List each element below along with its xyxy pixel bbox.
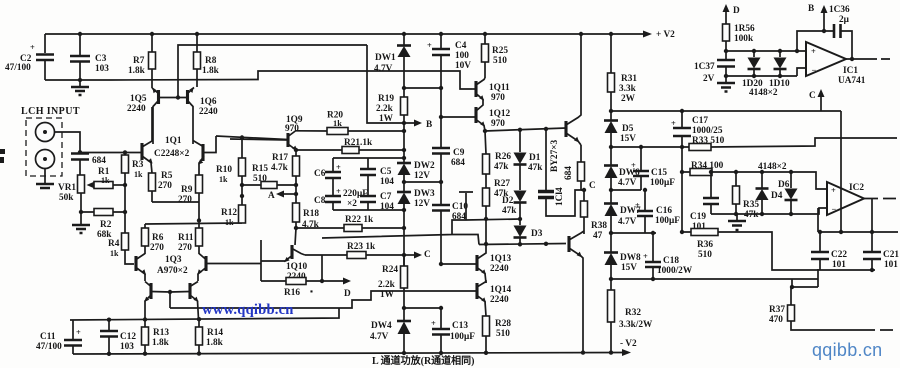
svg-text:R21.1k: R21.1k [344,138,373,148]
svg-text:R8: R8 [205,56,217,66]
svg-text:270: 270 [158,181,172,191]
zener DW1 [374,34,411,90]
resistor R23 [305,242,404,259]
svg-text:+ V2: + V2 [656,30,675,40]
capacitor 1C36 feedback [797,5,852,59]
svg-text:C9: C9 [453,148,465,158]
svg-text:2240: 2240 [199,107,218,117]
svg-text:47k: 47k [744,210,759,220]
wire IC2 vertical crossing [839,111,843,234]
svg-text:R16: R16 [284,288,300,298]
wire D-net staircase to 1Q14 base [170,291,476,308]
resistor R5 [149,171,173,191]
transistor 1Q13 [439,244,512,283]
node D arrow [343,278,351,300]
svg-text:1Q5: 1Q5 [130,94,147,104]
wire 1Q9 base [230,139,288,140]
svg-text:1Q12: 1Q12 [489,109,511,119]
svg-text:C17: C17 [692,116,708,126]
svg-text:1Q13: 1Q13 [490,254,512,264]
capacitor C21 [863,232,899,272]
resistor R13 [142,320,170,355]
svg-text:www.qqibb.cn: www.qqibb.cn [202,302,294,318]
svg-text:C19: C19 [690,212,706,222]
svg-text:47k: 47k [494,162,509,172]
svg-text:+: + [831,186,836,195]
svg-text:3.3k: 3.3k [619,84,637,94]
wire DW6 row [611,147,682,190]
op-amp IC1 [806,42,866,86]
svg-text:1k: 1k [134,170,143,179]
input jack J2 [36,150,55,169]
zener DW6 [604,166,640,204]
transistor 1Q12 [476,103,511,131]
capacitor C17 [671,111,723,149]
svg-text:D: D [344,289,351,299]
svg-text:684: 684 [92,156,106,166]
resistor 684 emitter [564,145,585,190]
svg-text:C: C [424,250,431,260]
svg-text:100μF: 100μF [450,332,475,342]
svg-text:1k: 1k [219,175,228,184]
wire plus input row IC1 [726,49,806,53]
transistor 1Q9 [285,115,303,151]
svg-text:D6: D6 [778,180,790,190]
svg-text:R5: R5 [161,171,173,181]
node B arrow up [808,4,828,33]
wire DW bottom tie to C column [404,181,441,183]
svg-text:270: 270 [178,195,192,205]
svg-text:100k: 100k [734,34,754,44]
zener DW7 [604,204,641,253]
wire lower diode row to BY27 base [479,242,566,246]
resistor R3 [122,150,144,233]
svg-text:R18: R18 [303,209,319,219]
svg-text:D4: D4 [771,191,783,201]
svg-text:2μ: 2μ [839,15,850,25]
svg-text:270: 270 [178,243,192,253]
capacitor 684 input [71,150,106,175]
svg-text:R27: R27 [494,179,510,189]
svg-text:1Q10: 1Q10 [286,262,308,272]
svg-text:- V2: - V2 [620,339,637,349]
svg-text:R38: R38 [591,221,607,231]
svg-text:100μF: 100μF [655,216,680,226]
svg-text:R35: R35 [743,200,759,210]
svg-text:qqibb.cn: qqibb.cn [812,340,882,360]
svg-text:103: 103 [120,342,134,352]
svg-text:1Q11: 1Q11 [489,83,510,93]
svg-text:1.8k: 1.8k [152,338,170,348]
wire IC2 output column [870,199,874,235]
wire D5 tap to C17 row [609,109,841,113]
svg-text:15V: 15V [620,134,636,144]
resistor R19 [376,88,408,133]
svg-text:R37: R37 [769,305,785,315]
svg-text:100: 100 [455,51,469,61]
zener DW3 [397,189,435,266]
wire jack to input node [55,132,81,152]
resistor R38 [581,201,608,241]
svg-text:BY27×3: BY27×3 [550,139,560,172]
wire DW4 row to C13 [404,307,441,309]
potentiometer VR1 [58,175,85,224]
node C output [581,181,596,201]
svg-text:101: 101 [884,260,898,270]
wire R13/R14 top row [70,308,339,322]
svg-text:C: C [589,181,596,191]
svg-text:R32: R32 [625,308,641,318]
svg-text:+: + [30,43,35,52]
svg-text:D2: D2 [502,196,514,206]
svg-text:D3: D3 [531,229,543,239]
svg-text:R31: R31 [621,74,637,84]
svg-text:R19: R19 [378,94,394,104]
svg-text:2.2k: 2.2k [378,280,396,290]
resistor R25 [482,34,509,78]
svg-text:4148×2: 4148×2 [749,88,778,98]
svg-text:DW4: DW4 [371,321,392,331]
svg-text:684: 684 [564,166,574,180]
capacitor C13 [431,306,475,353]
svg-text:R23 1k: R23 1k [347,242,376,252]
svg-text:2V: 2V [703,74,715,84]
svg-text:1W: 1W [380,290,395,300]
resistor R10 [216,138,246,206]
svg-text:4.7V: 4.7V [370,332,389,342]
resistor R28 [483,316,512,353]
wire R19 column down [402,131,406,163]
wire jog crossing near C10 [322,192,520,245]
svg-text:IC2: IC2 [849,183,864,193]
resistor R37 [769,287,893,330]
diode D3 [514,226,543,247]
diode 1D10 [769,51,790,89]
node C arrow up [809,89,825,111]
svg-text:50k: 50k [59,193,74,203]
svg-text:A970×2: A970×2 [157,266,188,276]
resistor R20 [296,111,404,135]
svg-text:R13: R13 [153,328,169,338]
svg-text:270: 270 [150,243,164,253]
svg-text:R6: R6 [152,233,164,243]
svg-text:DW3: DW3 [414,189,435,199]
transistor 1Q11 [472,78,510,103]
resistor R31 [608,34,638,120]
svg-text:+: + [635,201,640,210]
svg-text:C21: C21 [883,250,899,260]
svg-text:R14: R14 [207,328,223,338]
resistor R2 [81,209,125,241]
zener DW4 [370,321,411,353]
svg-text:2240: 2240 [127,104,146,114]
svg-text:2240: 2240 [490,264,509,274]
svg-text:×2: ×2 [347,199,357,209]
resistor R36 [682,229,875,271]
wire input node to 1Q1 base [80,152,141,154]
wire 1Q5/1Q6 base tie riser [159,45,368,100]
svg-text:4.7V: 4.7V [618,178,637,188]
wire mid cap bottom row [333,209,404,211]
svg-text:▪: ▪ [310,287,313,296]
node B riser and arrow [367,45,432,130]
wire base-bias run to 1Q11 base [110,71,472,89]
svg-text:DW8: DW8 [620,253,641,263]
ground below jack J2 [44,169,46,184]
svg-text:470: 470 [769,315,783,325]
resistor R18 [293,203,320,245]
svg-text:4.7V: 4.7V [374,64,393,74]
capacitor C7 [360,186,394,212]
svg-text:1C37: 1C37 [694,62,715,72]
capacitor C16 [635,188,680,233]
svg-text:IC1: IC1 [843,66,858,76]
svg-text:1k: 1k [225,218,234,227]
resistor R4 [108,233,134,264]
resistor R1 [87,167,126,189]
node C arrow [404,250,431,260]
capacitor C5 [360,167,394,187]
svg-text:3.3k/2W: 3.3k/2W [619,320,653,330]
svg-text:101: 101 [832,260,846,270]
svg-text:+: + [336,163,341,172]
wire cap top rail right [818,208,898,234]
svg-text:B: B [426,120,432,130]
transistor 1Q3 right [197,254,261,282]
LCH INPUT dashed box [21,106,80,176]
svg-text:C4: C4 [455,41,467,51]
svg-text:1000/25: 1000/25 [692,126,723,136]
transistor 1Q4 right [168,282,199,320]
transistor 1Q3 left [136,254,188,282]
ground below VR1 [72,225,90,233]
wire -V2 bottom rail [73,339,637,356]
transistor 1Q4 left [144,282,170,320]
svg-text:684: 684 [451,158,465,168]
svg-text:D5: D5 [622,124,634,134]
svg-text:C11: C11 [40,332,56,342]
wire +V2 top rail [45,30,675,40]
diode D6 [778,172,798,214]
svg-text:1Q6: 1Q6 [200,97,217,107]
svg-text:R26: R26 [495,152,511,162]
wire left bus column [680,147,684,234]
capacitor C14 [538,129,584,216]
capacitor C11 [36,320,82,354]
svg-text:4.7V: 4.7V [618,217,637,227]
svg-text:1Cl4: 1Cl4 [555,187,565,206]
resistor R6 [142,224,165,254]
resistor R24 [378,255,408,321]
svg-text:R33 510: R33 510 [692,136,725,146]
svg-text:B: B [808,4,814,14]
svg-text:970: 970 [285,124,299,134]
svg-text:R11: R11 [178,233,194,243]
svg-text:R7: R7 [133,56,145,66]
svg-text:12V: 12V [414,199,430,209]
transistor BY27 lower [569,231,584,353]
capacitor C8 [314,186,368,210]
capacitor C12 [100,320,136,354]
svg-text:−: − [812,66,817,75]
node D arrow up [723,4,741,24]
resistor R32 [608,290,654,353]
transistor 1Q1 left [142,107,190,173]
svg-text:970: 970 [491,93,505,103]
svg-text:UA741: UA741 [838,76,866,86]
svg-text:2240: 2240 [490,295,509,305]
svg-text:510: 510 [698,250,712,260]
svg-text:VR1: VR1 [58,183,76,193]
svg-text:+: + [431,319,436,328]
diode D2 [502,191,527,226]
svg-text:C22: C22 [831,250,847,260]
capacitor C9 [432,117,465,204]
capacitor 1C37 [694,60,735,84]
wire DW8 row to R37 [611,269,818,289]
diode 1D20 [742,51,763,89]
capacitor C18 [643,231,693,279]
resistor R11 [178,224,203,254]
svg-text:47/100: 47/100 [5,63,31,73]
svg-text:C18: C18 [663,256,679,266]
svg-text:R9: R9 [181,185,193,195]
svg-text:R25: R25 [492,46,508,56]
transistor 1Q6 [188,87,218,144]
resistor R27 [483,179,511,246]
svg-text:L 通道功放(R通道相同): L 通道功放(R通道相同) [372,354,475,367]
transistor 1Q14 [477,282,512,317]
svg-text:+: + [76,328,81,337]
svg-text:970: 970 [491,119,505,129]
resistor R22 [296,215,404,232]
wire emitter row to BY27 base [483,127,566,134]
svg-text:R36: R36 [697,240,713,250]
svg-text:R22 1k: R22 1k [345,215,374,225]
svg-text:C3: C3 [95,54,107,64]
ground below 1C37 [717,83,735,92]
resistor R17 [271,150,300,203]
capacitor C15 [631,145,675,190]
diode D1 [514,130,544,190]
svg-text:47k: 47k [528,163,543,173]
svg-text:+: + [427,41,432,50]
resistor R9 [178,175,203,205]
svg-text:+: + [631,161,636,170]
wire mid cap top row [333,158,404,171]
wire bias row to R12 [145,223,242,224]
resistor R33 [682,136,897,151]
diode D4 [756,172,783,214]
wire DW7 row [611,232,656,234]
svg-text:R3: R3 [132,160,144,170]
capacitor C6 [314,163,341,186]
svg-text:1Q14: 1Q14 [490,285,512,295]
svg-text:C7: C7 [380,192,392,202]
resistor R12 [221,205,246,227]
svg-text:1k: 1k [101,176,110,185]
svg-text:1.8k: 1.8k [128,66,146,76]
svg-text:C5: C5 [380,167,392,177]
svg-text:R10: R10 [216,165,232,175]
svg-text:1k: 1k [333,119,342,128]
svg-text:C6: C6 [314,169,326,179]
capacitor C10 [432,202,468,264]
svg-text:2.2k: 2.2k [376,104,394,114]
transistor 1Q5 [127,87,159,144]
resistor R15 [242,164,296,189]
svg-text:510: 510 [253,174,267,184]
resistor R26 [483,131,512,188]
capacitor C4 [427,34,471,90]
wire 1Q10 emitter drop [260,240,262,281]
wire IC1 output [846,57,890,61]
zener DW2 [397,161,435,192]
svg-text:D1: D1 [529,153,541,163]
wire C2/C3 ground rail [45,79,110,81]
zener D5 [604,121,636,166]
svg-text:D: D [733,6,740,16]
svg-text:+: + [671,119,676,128]
svg-text:C15: C15 [651,168,667,178]
svg-text:1000/2W: 1000/2W [657,266,693,276]
input jack J1 [36,123,55,142]
svg-text:12V: 12V [414,171,430,181]
resistor R8 [194,34,220,87]
svg-text:4.7k: 4.7k [271,163,289,173]
svg-text:R2: R2 [100,220,112,230]
svg-text:510: 510 [496,329,510,339]
svg-text:1.8k: 1.8k [206,338,224,348]
svg-text:R17: R17 [272,153,288,163]
svg-text:4148×2: 4148×2 [758,162,787,172]
svg-text:103: 103 [95,64,109,74]
svg-text:+: + [811,47,816,56]
transistor 1Q10 [261,245,308,282]
svg-text:1Q1: 1Q1 [165,136,182,146]
svg-text:47k: 47k [502,206,517,216]
svg-text:100μF: 100μF [650,178,675,188]
svg-text:A: A [268,191,275,201]
svg-text:+: + [643,252,648,261]
ground below C3 [79,80,81,86]
svg-text:R4: R4 [108,239,120,249]
svg-text:104: 104 [380,177,394,187]
svg-text:LCH INPUT: LCH INPUT [21,106,80,117]
svg-text:47/100: 47/100 [36,342,62,352]
svg-text:C12: C12 [120,332,136,342]
svg-text:+: + [336,187,341,196]
resistor 1R56 [723,24,756,59]
capacitor C19 [690,172,719,232]
svg-text:R24: R24 [382,265,398,275]
svg-text:510: 510 [493,56,507,66]
wire tail row R5/R9 [152,191,201,223]
svg-text:DW1: DW1 [375,53,396,63]
capacitor C3 [70,34,109,82]
resistor R14 [196,319,224,354]
transistor BY27 upper [550,34,581,172]
op-amp IC2 [827,182,896,215]
svg-text:C16: C16 [656,206,672,216]
svg-text:1C36: 1C36 [829,5,850,15]
svg-text:C8: C8 [314,196,326,206]
svg-text:R15: R15 [252,164,268,174]
svg-text:C13: C13 [452,321,468,331]
svg-text:1.8k: 1.8k [202,66,220,76]
svg-text:R28: R28 [495,319,511,329]
svg-text:1R56: 1R56 [734,24,755,34]
